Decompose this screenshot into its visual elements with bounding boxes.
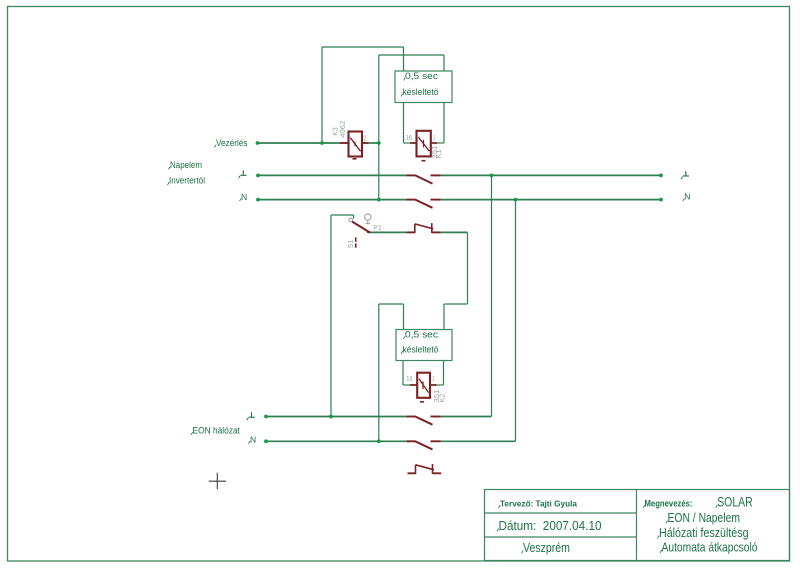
svg-text:Dátum: 2007.04.10: Dátum: 2007.04.10 [499,519,602,533]
svg-text:1: 1 [432,374,435,383]
svg-text:K2: K2 [437,394,446,403]
svg-text:EON hálózat: EON hálózat [193,426,241,437]
svg-text:Hálózati feszültésg: Hálózati feszültésg [659,526,749,540]
svg-text:N: N [684,192,690,202]
svg-text:0,5 sec: 0,5 sec [405,330,439,340]
svg-text:16: 16 [406,133,412,142]
svg-text:Invertertöl: Invertertöl [169,176,205,187]
svg-text:késleltetö: késleltetö [403,345,439,355]
svg-text:Veszprém: Veszprém [523,541,570,555]
svg-text:késleltetö: késleltetö [403,87,439,97]
svg-text:K1: K1 [434,150,443,159]
svg-text:EON / Napelem: EON / Napelem [668,511,741,525]
svg-text:0,5 sec: 0,5 sec [405,71,439,81]
svg-text:S1: S1 [346,240,355,249]
svg-text:N: N [241,192,247,202]
svg-text:Automata átkapcsoló: Automata átkapcsoló [662,541,758,555]
svg-text:4062: 4062 [338,121,347,138]
svg-text:Megnevezés:: Megnevezés: [645,499,693,509]
svg-text:Tervező: Tajti Gyula: Tervező: Tajti Gyula [500,500,578,509]
svg-text:1: 1 [433,133,436,142]
svg-text:Vezérlés: Vezérlés [216,138,248,149]
svg-text:P1: P1 [373,223,382,232]
svg-text:16: 16 [406,374,412,383]
svg-text:2: 2 [363,133,367,142]
svg-text:SOLAR: SOLAR [717,495,753,510]
svg-text:N: N [250,434,256,444]
svg-text:Napelem: Napelem [170,160,202,171]
